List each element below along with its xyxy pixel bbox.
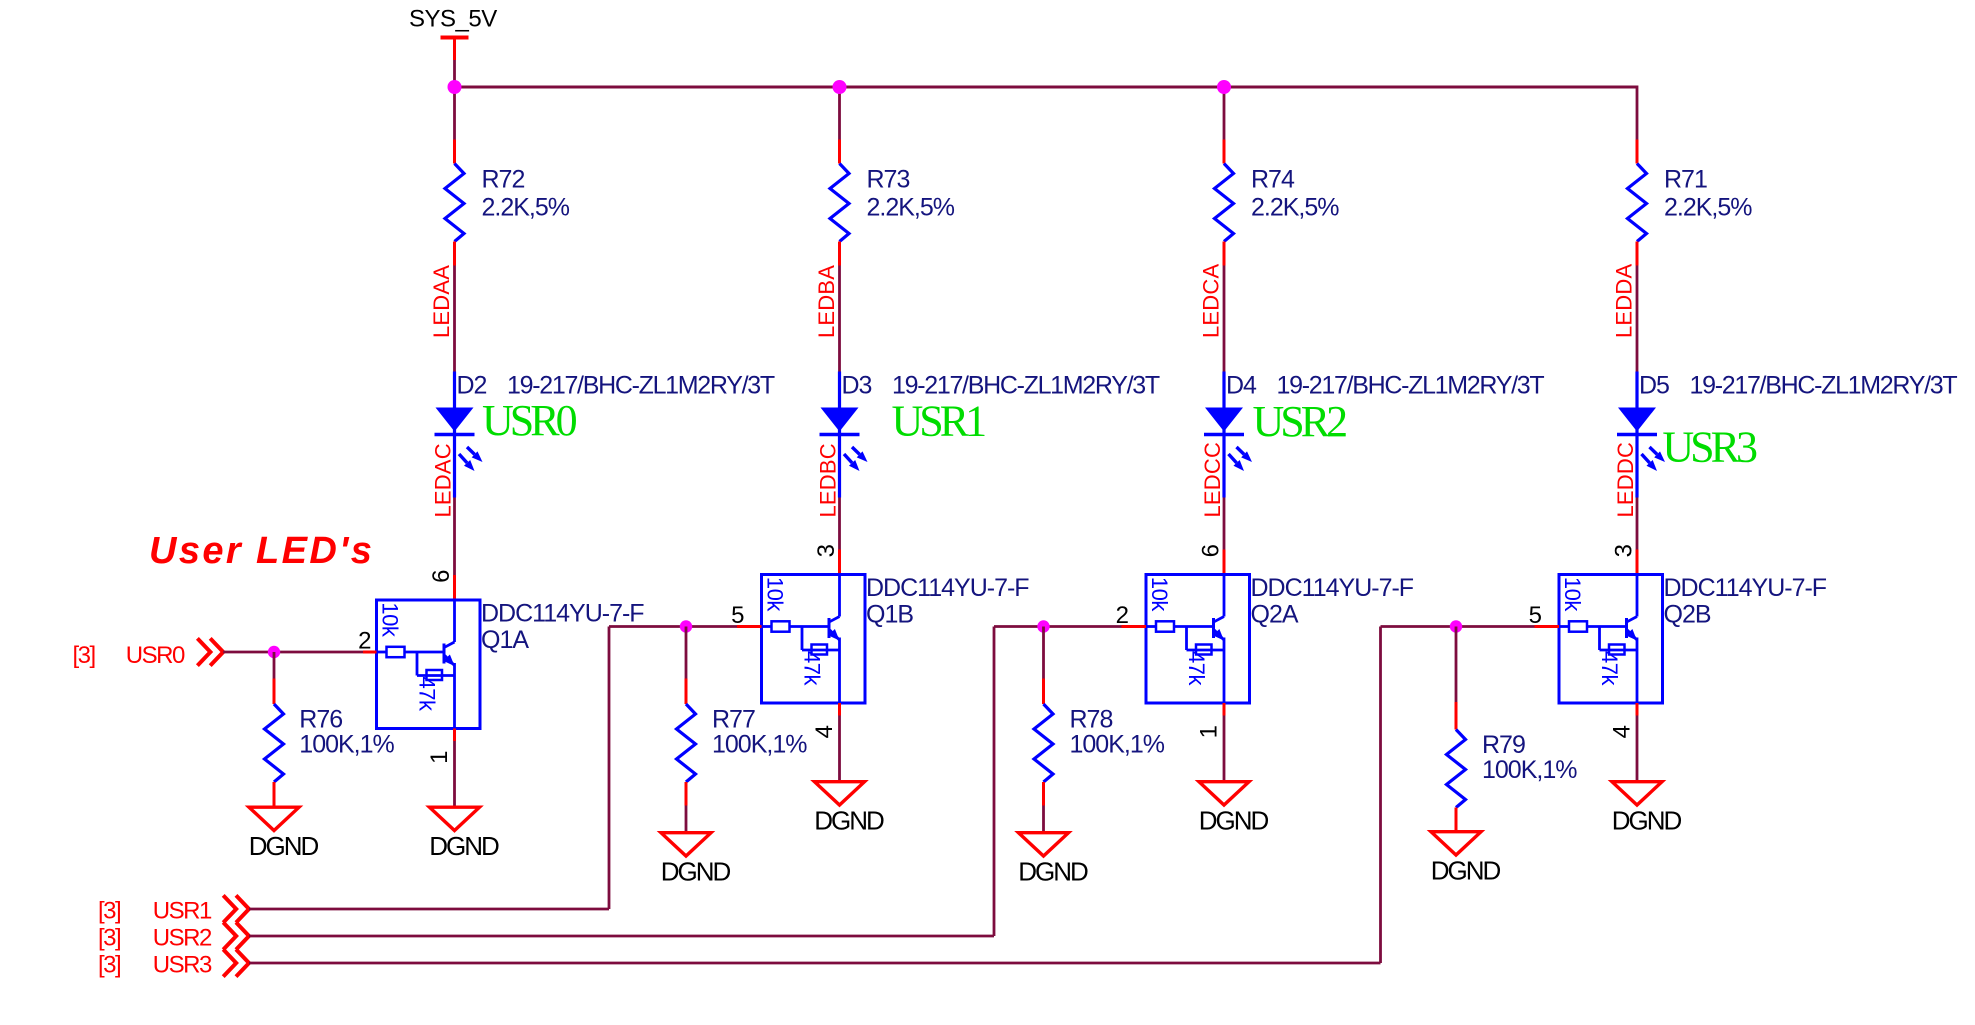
- svg-text:R76: R76: [299, 706, 342, 734]
- svg-text:Q1A: Q1A: [481, 626, 529, 654]
- svg-text:USR1: USR1: [153, 898, 212, 925]
- svg-text:100K,1%: 100K,1%: [712, 731, 807, 759]
- svg-text:100K,1%: 100K,1%: [1070, 731, 1165, 759]
- svg-text:Q2B: Q2B: [1664, 601, 1711, 629]
- svg-text:DGND: DGND: [1431, 856, 1501, 886]
- svg-text:USR3: USR3: [1662, 423, 1757, 472]
- svg-text:DGND: DGND: [1018, 857, 1088, 887]
- svg-text:R79: R79: [1482, 731, 1525, 759]
- svg-text:USR1: USR1: [892, 397, 986, 446]
- svg-text:LEDDA: LEDDA: [1612, 264, 1637, 338]
- svg-text:LEDAA: LEDAA: [429, 265, 454, 338]
- svg-text:2: 2: [358, 628, 371, 655]
- svg-text:47k: 47k: [1184, 651, 1209, 686]
- svg-text:4: 4: [811, 725, 838, 738]
- svg-text:DDC114YU-7-F: DDC114YU-7-F: [1664, 574, 1827, 602]
- svg-text:DDC114YU-7-F: DDC114YU-7-F: [866, 574, 1029, 602]
- svg-text:DGND: DGND: [1612, 806, 1682, 836]
- svg-text:19-217/BHC-ZL1M2RY/3T: 19-217/BHC-ZL1M2RY/3T: [1277, 372, 1545, 400]
- svg-text:4: 4: [1609, 725, 1636, 738]
- svg-text:2: 2: [1116, 602, 1129, 629]
- svg-text:47k: 47k: [800, 651, 825, 686]
- svg-text:LEDBA: LEDBA: [814, 265, 839, 338]
- svg-text:R74: R74: [1251, 166, 1295, 194]
- svg-text:SYS_5V: SYS_5V: [409, 6, 497, 33]
- svg-text:Q1B: Q1B: [866, 601, 913, 629]
- svg-text:D4: D4: [1226, 372, 1257, 400]
- svg-text:[3]: [3]: [98, 952, 120, 979]
- svg-text:5: 5: [731, 602, 744, 629]
- svg-text:19-217/BHC-ZL1M2RY/3T: 19-217/BHC-ZL1M2RY/3T: [892, 372, 1160, 400]
- svg-text:DGND: DGND: [814, 806, 884, 836]
- svg-text:6: 6: [1198, 544, 1225, 557]
- svg-text:R72: R72: [482, 166, 525, 194]
- svg-text:LEDAC: LEDAC: [431, 443, 456, 517]
- svg-text:2.2K,5%: 2.2K,5%: [1664, 194, 1752, 222]
- svg-text:USR0: USR0: [482, 396, 577, 445]
- svg-text:USR2: USR2: [153, 925, 212, 952]
- svg-text:1: 1: [426, 751, 453, 764]
- svg-text:10k: 10k: [1560, 577, 1585, 612]
- svg-text:3: 3: [813, 544, 840, 557]
- svg-text:6: 6: [428, 570, 455, 583]
- svg-text:R78: R78: [1070, 706, 1113, 734]
- svg-text:D3: D3: [842, 372, 872, 400]
- svg-text:LEDCA: LEDCA: [1199, 264, 1224, 338]
- svg-text:[3]: [3]: [98, 925, 120, 952]
- svg-text:R71: R71: [1664, 166, 1707, 194]
- svg-text:[3]: [3]: [98, 898, 120, 925]
- svg-text:R77: R77: [712, 706, 755, 734]
- svg-text:DGND: DGND: [429, 831, 499, 861]
- svg-text:User LED's: User LED's: [149, 530, 374, 572]
- svg-text:2.2K,5%: 2.2K,5%: [1251, 194, 1339, 222]
- svg-text:LEDBC: LEDBC: [816, 443, 841, 517]
- svg-text:10k: 10k: [1147, 577, 1172, 612]
- svg-text:USR2: USR2: [1253, 397, 1347, 446]
- svg-text:10k: 10k: [378, 602, 403, 637]
- svg-text:DGND: DGND: [1199, 806, 1269, 836]
- svg-text:47k: 47k: [415, 677, 440, 712]
- svg-text:DGND: DGND: [249, 831, 319, 861]
- svg-text:USR0: USR0: [126, 642, 185, 669]
- svg-text:1: 1: [1196, 725, 1223, 738]
- svg-text:DDC114YU-7-F: DDC114YU-7-F: [481, 600, 644, 628]
- svg-text:USR3: USR3: [153, 952, 212, 979]
- svg-text:DGND: DGND: [661, 857, 731, 887]
- svg-text:2.2K,5%: 2.2K,5%: [867, 194, 955, 222]
- svg-text:100K,1%: 100K,1%: [1482, 756, 1577, 784]
- svg-text:Q2A: Q2A: [1251, 601, 1299, 629]
- svg-text:100K,1%: 100K,1%: [299, 731, 394, 759]
- svg-text:LEDCC: LEDCC: [1200, 442, 1225, 518]
- svg-text:[3]: [3]: [73, 642, 95, 669]
- svg-text:5: 5: [1529, 602, 1542, 629]
- svg-text:47k: 47k: [1597, 651, 1622, 686]
- svg-text:3: 3: [1611, 544, 1638, 557]
- svg-text:LEDDC: LEDDC: [1613, 442, 1638, 518]
- svg-text:2.2K,5%: 2.2K,5%: [482, 194, 570, 222]
- svg-text:R73: R73: [867, 166, 910, 194]
- svg-text:D5: D5: [1639, 372, 1669, 400]
- svg-text:19-217/BHC-ZL1M2RY/3T: 19-217/BHC-ZL1M2RY/3T: [1690, 372, 1958, 400]
- svg-text:DDC114YU-7-F: DDC114YU-7-F: [1251, 574, 1414, 602]
- svg-text:10k: 10k: [763, 577, 788, 612]
